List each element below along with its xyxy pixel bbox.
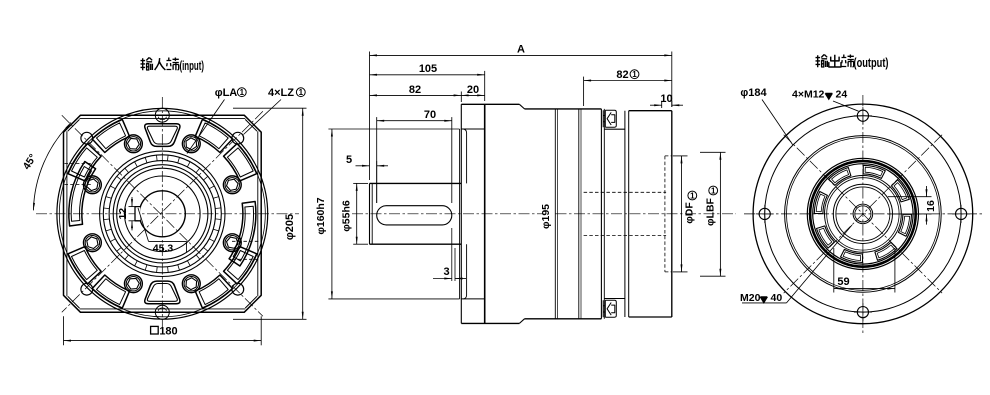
- phi184 boss circle: [765, 116, 961, 312]
- svg-text:3: 3: [443, 266, 449, 278]
- neck section: [604, 128, 625, 130]
- svg-text:45.3: 45.3: [153, 243, 174, 255]
- dim 82-1 output: [583, 77, 585, 106]
- left side pocket: [69, 162, 96, 227]
- svg-text:4×LZ: 4×LZ: [268, 87, 294, 99]
- dim 59: [833, 248, 835, 293]
- output bolt holes 4xM12: [857, 110, 868, 121]
- svg-text:20: 20: [467, 84, 479, 96]
- hex socket screws: [124, 135, 142, 153]
- dim 70 keyway: [376, 117, 378, 203]
- svg-text:φLA: φLA: [215, 87, 238, 99]
- svg-text:1: 1: [690, 191, 695, 200]
- top and bottom pilot circles: [155, 108, 169, 122]
- body seams: [554, 109, 556, 319]
- dim phi55h6: [353, 182, 368, 184]
- chamfer inner lines: [68, 119, 80, 131]
- dim phi DF1: [673, 155, 688, 157]
- output view centerlines: [862, 95, 864, 333]
- phi195 body circle: [59, 111, 265, 317]
- svg-text:40: 40: [771, 292, 783, 304]
- svg-text:A: A: [517, 43, 525, 55]
- svg-text:82: 82: [409, 84, 421, 96]
- body right edge: [600, 109, 602, 319]
- right side pocket: [229, 202, 256, 267]
- svg-text:82: 82: [616, 69, 628, 81]
- dim phi205: [233, 107, 307, 109]
- corner bolt holes 4xLZ: [81, 132, 93, 144]
- dim phi LBF1: [700, 151, 726, 153]
- title output (CJK): [816, 55, 828, 68]
- inner edge lines: [66, 131, 68, 296]
- bottom window pocket: [145, 281, 180, 304]
- housing chamfer and body: [519, 104, 524, 109]
- label 4xM12 leader: [833, 101, 859, 111]
- dim 12 keyway width: [129, 206, 138, 208]
- retaining screw top: [603, 110, 616, 127]
- label phi184 leader: [762, 100, 793, 145]
- svg-text:1: 1: [240, 88, 245, 97]
- svg-text:1: 1: [711, 186, 716, 195]
- label M20 leader: [742, 302, 787, 304]
- svg-text:4×M12: 4×M12: [792, 89, 825, 101]
- dim 3: [451, 228, 453, 281]
- svg-text:16: 16: [925, 200, 937, 212]
- dim 82 input: [460, 92, 462, 103]
- svg-text:1: 1: [632, 70, 637, 79]
- svg-text:10: 10: [660, 93, 672, 105]
- concentric rings: [100, 151, 225, 276]
- svg-text:φ184: φ184: [740, 87, 767, 99]
- center bore with keyway: [139, 191, 185, 237]
- svg-text:M20: M20: [740, 292, 761, 304]
- phi205 boss circle: [57, 108, 268, 319]
- phi160 pilot boss face: [459, 129, 461, 299]
- dim square 180: [63, 316, 65, 345]
- input shaft phi55: [369, 183, 371, 244]
- top window pocket: [145, 124, 180, 147]
- svg-text:(output): (output): [854, 56, 889, 70]
- svg-text:5: 5: [346, 154, 352, 166]
- svg-text:(input): (input): [180, 59, 205, 73]
- square flange outline 180x180: [64, 115, 262, 312]
- inner rings: [785, 136, 942, 293]
- svg-text:1: 1: [299, 88, 304, 97]
- output drive slots: [863, 165, 885, 178]
- label phi195: [543, 193, 555, 239]
- svg-text:70: 70: [424, 109, 436, 121]
- title input (CJK): [141, 58, 153, 71]
- svg-text:φLBF: φLBF: [705, 197, 717, 226]
- dim 5: [356, 165, 370, 167]
- corner pockets: [224, 247, 257, 284]
- dim A overall: [369, 52, 371, 181]
- svg-text:12: 12: [117, 208, 129, 220]
- pilot recess bore edges: [461, 128, 485, 130]
- hidden lines: [65, 163, 94, 165]
- dim 10: [661, 101, 663, 108]
- svg-text:105: 105: [419, 63, 437, 75]
- input face view centerlines: [36, 97, 299, 331]
- label phi LA1 leader: [187, 100, 225, 154]
- retaining screw bottom: [603, 300, 616, 317]
- svg-text:59: 59: [837, 276, 849, 288]
- shaft keyway slot 70 long: [377, 206, 452, 225]
- svg-text:φ195: φ195: [540, 204, 552, 229]
- dim 45 deg: [33, 123, 71, 211]
- ring gear teeth ticks: [104, 155, 222, 273]
- dim 45.3: [149, 240, 187, 242]
- outer flange circle: [753, 104, 973, 324]
- svg-text:24: 24: [836, 89, 848, 101]
- dim phi160h7: [328, 128, 459, 130]
- middle view centerline: [352, 213, 736, 215]
- label 4xLZ1 leader: [244, 100, 282, 135]
- dim 105: [484, 71, 486, 101]
- hidden bore lines: [584, 191, 667, 193]
- svg-text:φ55h6: φ55h6: [340, 200, 352, 232]
- svg-text:φ160h7: φ160h7: [315, 197, 327, 234]
- svg-text:180: 180: [159, 326, 177, 338]
- svg-text:φDF: φDF: [684, 202, 696, 224]
- dim 16: [888, 196, 932, 198]
- output disc: [624, 111, 626, 317]
- svg-text:φ205: φ205: [284, 214, 296, 240]
- dim 20: [461, 94, 485, 96]
- square flange side: [484, 104, 486, 323]
